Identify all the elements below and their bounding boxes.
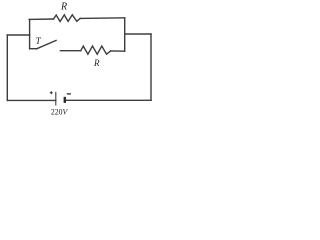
wire: right bus vertical — [124, 18, 126, 51]
wire: right tap horizontal — [125, 33, 151, 35]
svg-text:220V: 220V — [51, 107, 69, 117]
svg-text:T: T — [36, 36, 42, 46]
wire: left tap horizontal — [7, 34, 29, 36]
wire: R2 to right bus — [111, 50, 125, 52]
wire: bottom right segment — [65, 99, 151, 101]
resistor R1 (top branch) — [54, 15, 81, 22]
wire: switch contact to R2 — [60, 50, 80, 52]
resistor R2 (middle branch) — [81, 46, 111, 54]
wire: left outer vertical — [6, 35, 8, 100]
svg-text:R: R — [93, 58, 100, 68]
battery negative plate (short) — [64, 98, 66, 102]
wire: top wire right segment — [80, 17, 125, 20]
wire: right outer vertical — [150, 34, 152, 100]
battery polarity label - — [67, 93, 71, 95]
wire: top wire left segment — [29, 18, 53, 20]
battery positive plate (long) — [55, 92, 57, 105]
wire: left bus vertical — [29, 19, 31, 48]
wire: bottom left segment — [7, 99, 56, 101]
battery polarity label + — [50, 91, 53, 94]
svg-text:R: R — [60, 2, 67, 13]
switch T blade (open) — [37, 40, 57, 48]
switch T pivot stub — [30, 48, 37, 50]
